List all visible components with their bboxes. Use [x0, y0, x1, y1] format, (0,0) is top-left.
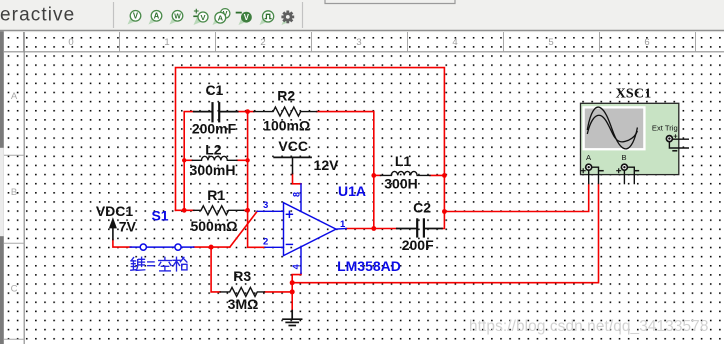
wire S1 node down to R3: [211, 247, 220, 292]
svg-text:1: 1: [340, 219, 346, 230]
probe icon plus-minus V: [193, 6, 208, 25]
inductor L2: [192, 156, 237, 160]
svg-text:C1: C1: [205, 82, 223, 98]
svg-text:L2: L2: [205, 142, 222, 158]
svg-text:VCC: VCC: [278, 138, 308, 154]
wire output node to scope A plus: [444, 184, 588, 212]
wire R1 row left: [176, 209, 195, 211]
probe icon -V: [236, 12, 252, 25]
wire L1 right stub: [430, 174, 444, 176]
wire diagonal to non-inverting input: [230, 211, 257, 247]
wire op-amp output to C2: [346, 228, 397, 230]
wire scope A minus to ground net: [292, 184, 598, 283]
junction dots: [182, 109, 447, 294]
switch S1: [130, 244, 193, 250]
oscilloscope XSC1: [581, 87, 690, 185]
pin 2 stub: [265, 246, 284, 248]
svg-text:V: V: [133, 12, 139, 21]
toolbar separator: [113, 2, 115, 28]
left dark bar: [0, 31, 4, 344]
channel A pin stubs: [589, 167, 599, 184]
resistor R2: [254, 107, 317, 116]
resistor R3: [220, 287, 264, 296]
svg-text:A: A: [11, 91, 18, 102]
svg-text:7V: 7V: [119, 218, 137, 234]
svg-text:XSC1: XSC1: [616, 87, 652, 102]
probe icon A: [149, 11, 162, 25]
probe icon V: [128, 11, 141, 25]
pin 8 stub: [300, 184, 302, 211]
wire VDC to switch: [113, 240, 131, 248]
svg-text:LM358AD: LM358AD: [337, 258, 401, 274]
wire R1 right stub: [244, 209, 248, 211]
svg-text:100mΩ: 100mΩ: [263, 117, 310, 133]
svg-text:300mH: 300mH: [190, 162, 236, 178]
svg-text:4: 4: [291, 264, 301, 269]
svg-text:2: 2: [263, 237, 268, 248]
wire inner left rail: [184, 112, 194, 211]
probe icon clock: [260, 11, 274, 25]
ext trig minus pin: [669, 142, 689, 148]
pin 3 stub: [257, 210, 283, 212]
svg-text:W: W: [174, 13, 181, 20]
VCC power symbol: [274, 157, 311, 173]
channel A terminal: [586, 164, 592, 170]
wire L2 left stub: [184, 159, 192, 161]
capacitor C2: [397, 219, 442, 236]
circuit group: [96, 68, 599, 326]
key label (hand-drawn CJK): [131, 257, 187, 271]
svg-text:C2: C2: [413, 199, 431, 215]
wire VCC to pin8: [293, 174, 302, 184]
gear icon: [281, 11, 294, 26]
svg-text:V: V: [244, 13, 250, 22]
svg-text:4: 4: [452, 37, 457, 48]
probe icon AV: [213, 9, 230, 25]
ext trig terminal: [666, 136, 672, 142]
ground: [283, 311, 302, 326]
resistor R1: [194, 206, 244, 215]
wire R3 right to ground node: [265, 291, 293, 293]
svg-text:VDC1: VDC1: [96, 203, 134, 219]
svg-text:6: 6: [644, 37, 649, 48]
svg-text:5: 5: [548, 37, 553, 48]
svg-text:V: V: [200, 13, 205, 22]
svg-text:3MΩ: 3MΩ: [228, 296, 259, 312]
svg-text:R2: R2: [277, 87, 295, 103]
scope waveform B: [587, 115, 637, 142]
svg-text:200mF: 200mF: [192, 121, 237, 137]
svg-text:R1: R1: [207, 187, 225, 203]
capacitor C1: [194, 103, 238, 121]
svg-text:200F: 200F: [402, 237, 434, 253]
panel edge remnant at top: [325, 0, 455, 4]
svg-text:3: 3: [263, 200, 268, 211]
probe icon W: [170, 11, 183, 25]
channel B terminal: [621, 164, 627, 170]
toolbar background: [0, 0, 724, 30]
svg-text:A: A: [154, 12, 160, 21]
inductor L1: [381, 171, 431, 175]
probe icons group: [128, 6, 295, 25]
wire top feedback loop: [176, 68, 445, 229]
wire C1 to R2: [238, 111, 254, 113]
svg-text:8: 8: [292, 192, 302, 197]
svg-text:A: A: [218, 14, 224, 23]
svg-text:300H: 300H: [384, 176, 417, 192]
svg-text:3: 3: [356, 37, 361, 48]
svg-text:B: B: [11, 187, 17, 198]
svg-text:eractive: eractive: [0, 5, 75, 26]
channel B pin stubs: [624, 167, 634, 184]
wire R2 right to mid rail down to output: [317, 112, 374, 229]
svg-text:U1A: U1A: [338, 183, 366, 199]
svg-text:12V: 12V: [314, 157, 340, 173]
scope screen: [582, 106, 645, 150]
svg-text:2: 2: [260, 37, 265, 48]
svg-text:0: 0: [68, 37, 73, 48]
svg-text:R3: R3: [233, 268, 251, 284]
svg-text:https://blog.csdn.net/qq_34133: https://blog.csdn.net/qq_34133578: [469, 318, 708, 335]
op-amp U1A: [257, 184, 346, 274]
svg-text:1: 1: [164, 37, 169, 48]
wire L2 right stub: [237, 159, 248, 161]
wire switch to node A: [194, 246, 230, 248]
svg-text:S1: S1: [151, 208, 168, 224]
svg-text:500mΩ: 500mΩ: [190, 218, 237, 234]
left ruler: [4, 32, 24, 344]
top ruler: [4, 32, 724, 52]
svg-text:+: +: [673, 131, 678, 140]
wire op-amp pin4 to ground: [292, 273, 301, 310]
svg-text:B: B: [621, 153, 626, 162]
svg-text:L1: L1: [395, 153, 412, 169]
scope waveform A: [587, 107, 637, 149]
wire right rail to inverting input: [248, 112, 265, 248]
pin 4 stub: [300, 246, 302, 273]
pin 1 stub: [336, 228, 346, 231]
ext trig plus pin: [673, 138, 689, 140]
wire L1 left stub: [374, 174, 381, 176]
svg-text:C: C: [11, 283, 18, 294]
source VDC1 arrow: [110, 220, 116, 240]
